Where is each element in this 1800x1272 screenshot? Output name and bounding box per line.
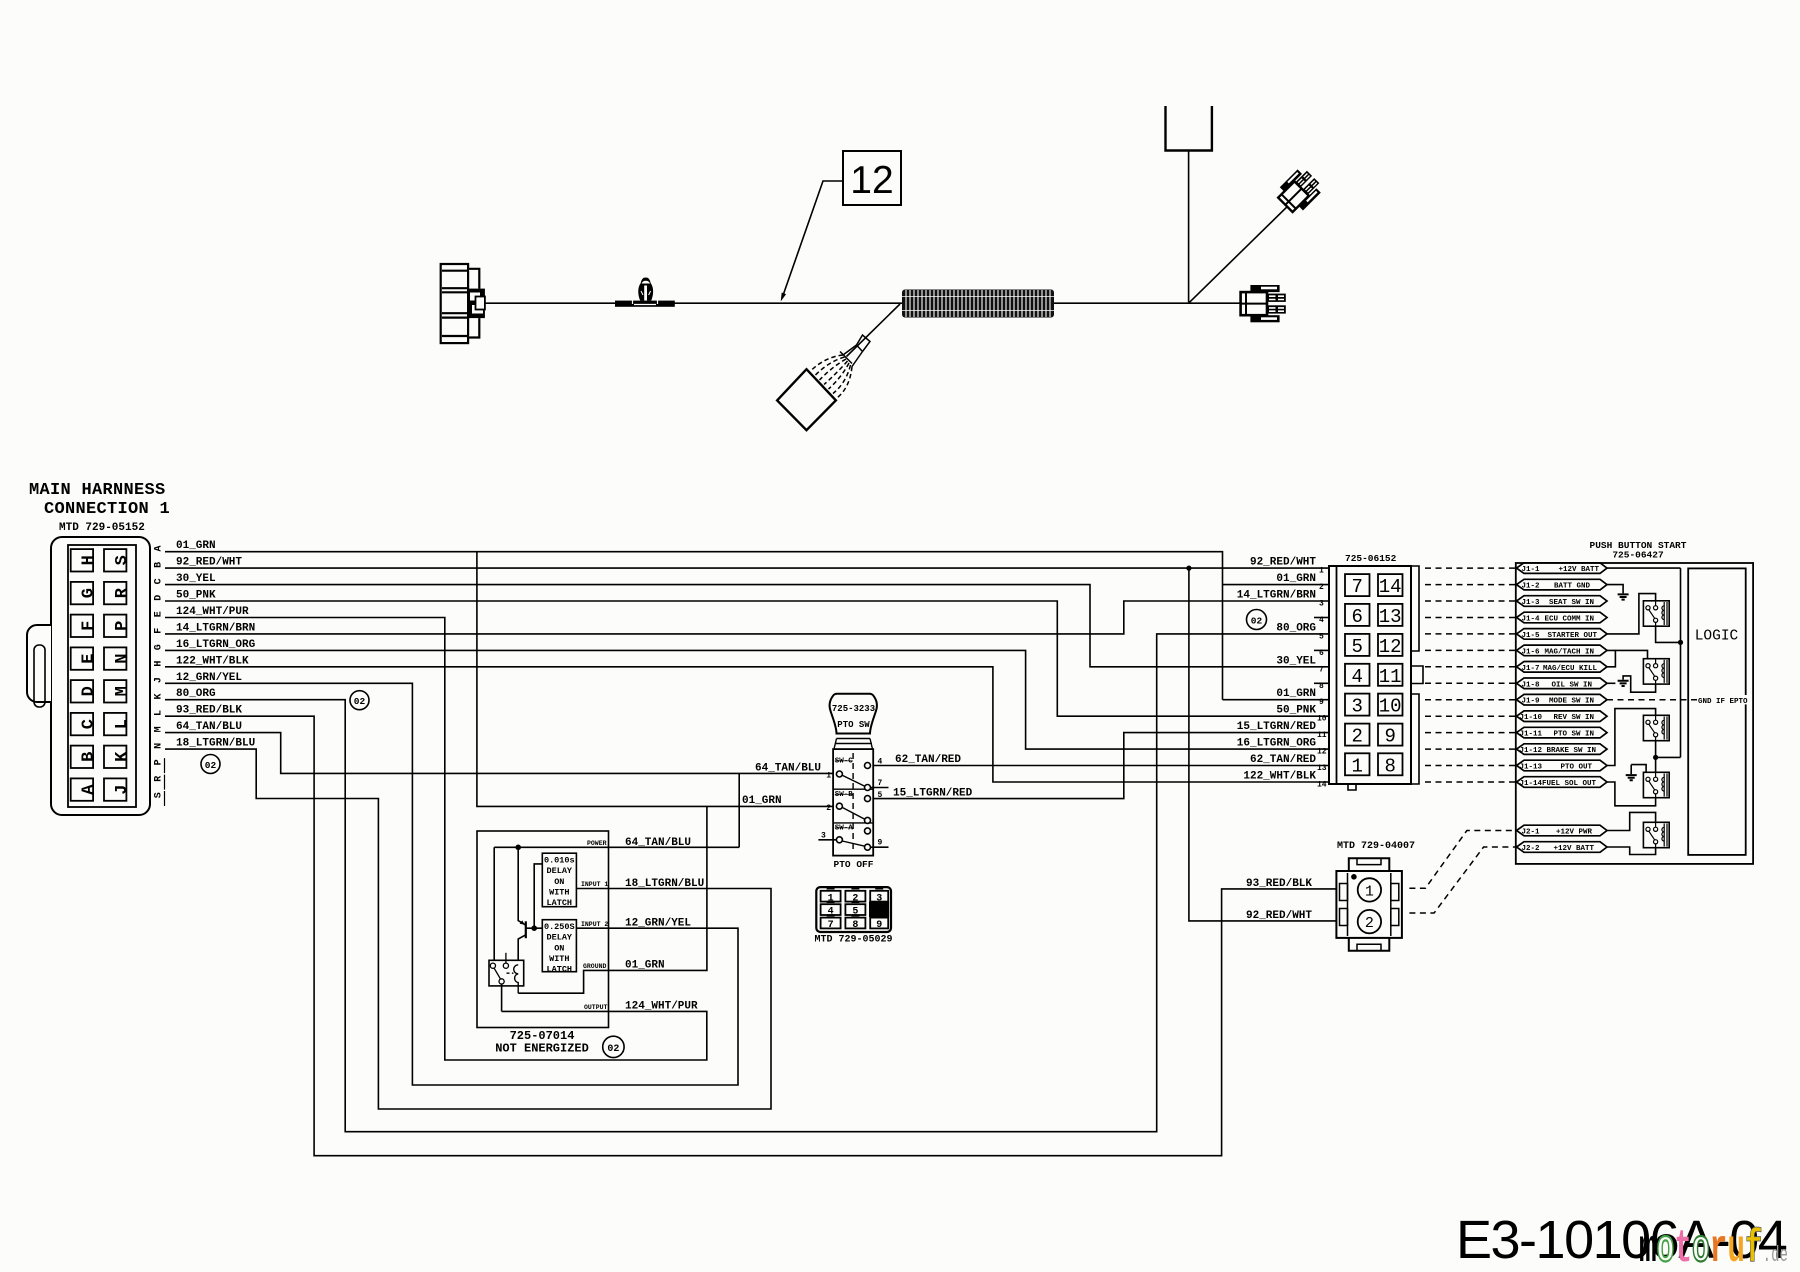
connector J1 cavity letters [80,555,132,795]
relay RL2 [1643,659,1669,684]
svg-text:MAG/TACH IN: MAG/TACH IN [1544,648,1594,656]
svg-text:12: 12 [1317,748,1327,757]
PTO switch SW-C contacts [836,763,870,791]
pin flag J1-6 [1517,645,1608,656]
svg-text:6: 6 [1351,606,1362,628]
cell 1 [821,891,841,902]
cell 9 [870,918,888,929]
svg-text:ON: ON [554,877,564,887]
transistor base junction dot [531,925,537,931]
transistor Q1 [518,847,542,965]
svg-text:11: 11 [1379,666,1402,688]
svg-text:30_YEL: 30_YEL [176,573,216,585]
svg-text:18_LTGRN/BLU: 18_LTGRN/BLU [176,738,255,750]
svg-text:12: 12 [850,159,893,202]
svg-text:K: K [154,693,165,699]
fan connector wires [811,335,871,398]
pin flag J2-2 [1517,842,1608,853]
svg-text:H: H [80,555,99,565]
svg-text:62_TAN/RED: 62_TAN/RED [895,754,961,766]
svg-text:G: G [154,644,165,650]
dashed links 06152 to push button [1425,568,1516,782]
svg-text:8: 8 [852,920,858,931]
svg-text:J2-2: J2-2 [1522,845,1541,853]
pin flag J1-9 [1517,694,1608,705]
svg-text:PTO OUT: PTO OUT [1560,764,1592,772]
svg-text:9: 9 [1384,726,1395,748]
svg-text:+12V PWR: +12V PWR [1556,829,1593,837]
svg-text:INPUT 1: INPUT 1 [581,881,608,888]
svg-text:BATT GND: BATT GND [1554,583,1591,591]
svg-text:92_RED/WHT: 92_RED/WHT [176,557,242,569]
svg-text:LATCH: LATCH [547,965,573,975]
svg-text:STARTER OUT: STARTER OUT [1547,632,1597,640]
svg-text:92_RED/WHT: 92_RED/WHT [1246,910,1312,922]
title MAIN HARNNESS CONNECTION 1 [29,481,170,534]
svg-text:G: G [80,588,99,598]
cell 3 [870,891,888,902]
svg-text:OIL SW IN: OIL SW IN [1551,681,1592,689]
connector 725-06152 body [1329,566,1423,790]
svg-text:GND IF EPTO: GND IF EPTO [1698,698,1748,706]
svg-text:5: 5 [852,907,858,918]
svg-text:3: 3 [876,893,882,904]
harness connector P1 (left) [441,264,485,343]
svg-text:OUTPUT: OUTPUT [584,1004,608,1011]
round connector key dot [1351,874,1357,880]
right tab upper [1411,566,1419,651]
junction dot 92_RED/WHT [1186,566,1191,571]
PTO switch SW-B contacts [836,796,870,824]
branch wire to fan connector [847,304,901,357]
+12V rail [1607,568,1681,757]
wire F 14_LTGRN/BRN [165,601,1329,634]
right tab middle [1411,666,1423,684]
svg-text:14: 14 [1379,576,1402,598]
svg-text:9: 9 [1319,698,1324,707]
connector 725-06152 pin boxes [1345,574,1403,775]
wire M 64_TAN/BLU [165,733,833,774]
delay module POWER junction dot [515,845,521,851]
J1-7 link [1607,650,1615,666]
svg-text:7: 7 [1319,665,1324,674]
svg-text:J1-13: J1-13 [1520,764,1543,772]
pin flag J1-11 [1517,727,1608,738]
svg-text:50_PNK: 50_PNK [1276,705,1316,717]
U bracket [1166,106,1212,151]
svg-text:S: S [113,555,132,565]
ground C [1626,775,1637,780]
wire 62_TAN/RED [873,765,1329,767]
svg-text:8: 8 [1384,755,1395,777]
PTO switch pin numbers [821,758,883,848]
PTO switch neck [835,739,872,744]
svg-text:7: 7 [878,779,883,788]
relay K1 contact box [489,960,524,986]
svg-text:92_RED/WHT: 92_RED/WHT [1250,557,1316,569]
svg-text:J1-14FUEL SOL OUT: J1-14FUEL SOL OUT [1520,780,1597,788]
pin flag J1-5 [1517,629,1608,640]
svg-text:14_LTGRN/BRN: 14_LTGRN/BRN [176,622,255,634]
svg-text:80_ORG: 80_ORG [176,688,216,700]
svg-text:6: 6 [1319,649,1324,658]
svg-text:1: 1 [1351,755,1362,777]
wire labels at 06152 [1237,557,1317,783]
svg-text:01_GRN: 01_GRN [742,795,782,807]
note circle 02 mid [350,691,369,710]
svg-text:J2-1: J2-1 [1522,829,1541,837]
svg-text:E: E [80,653,99,663]
svg-text:SW-A: SW-A [835,825,854,833]
svg-text:1: 1 [828,893,834,904]
cable clip [615,278,675,307]
svg-text:MTD 729-05029: MTD 729-05029 [814,935,892,946]
PTO switch pin9 stub [871,846,889,848]
svg-text:15_LTGRN/RED: 15_LTGRN/RED [893,788,973,800]
svg-text:4: 4 [878,758,883,767]
svg-text:+12V BATT: +12V BATT [1558,566,1599,574]
svg-text:SW-C: SW-C [835,758,854,766]
stub pin4 06152 [1314,617,1329,619]
svg-text:J1-8: J1-8 [1522,681,1541,689]
svg-text:PTO SW: PTO SW [837,720,870,730]
fan connector body (diamond) [777,369,836,430]
cell 8 [845,918,865,929]
svg-text:C: C [80,719,99,729]
wire C 30_YEL [165,585,1329,667]
label 12 leader line [784,181,844,294]
wire 15_LTGRN/RED [873,733,1329,799]
svg-text:64_TAN/BLU: 64_TAN/BLU [625,837,691,849]
cell 7 [821,918,841,929]
harness main wire [485,302,1241,304]
corrugated tube [902,290,1054,318]
svg-text:MAG/ECU KILL: MAG/ECU KILL [1543,665,1598,673]
delay module 725-07014 outer box [477,831,609,1028]
svg-text:WITH: WITH [549,887,569,897]
delay box 0.010s [542,853,576,907]
svg-text:16_LTGRN_ORG: 16_LTGRN_ORG [1237,738,1317,750]
svg-text:R: R [154,776,165,782]
svg-text:02: 02 [607,1044,619,1055]
svg-text:7: 7 [1351,576,1362,598]
svg-text:J1-2: J1-2 [1522,583,1541,591]
pin flag J1-4 [1517,612,1608,623]
pin flag J1-14 [1517,777,1608,788]
note circle 02 at 06152 pin5 [1247,610,1267,630]
svg-text:P: P [113,621,132,631]
svg-text:01_GRN: 01_GRN [1276,573,1316,585]
connector J1 body [27,537,150,815]
wire G 16_LTGRN_ORG [165,650,1329,749]
connector J1 pin cavities column 2 (S R P N M L K J) [104,549,126,801]
svg-text:WITH: WITH [549,954,569,964]
svg-text:15_LTGRN/RED: 15_LTGRN/RED [1237,721,1317,733]
bottom notch [1348,784,1356,790]
delay module part number [495,1029,589,1056]
svg-text:01_GRN: 01_GRN [1276,688,1316,700]
svg-text:J: J [154,677,165,683]
round connector MTD 729-04007 body [1336,858,1402,951]
svg-text:REV SW IN: REV SW IN [1553,714,1594,722]
relay RL5 [1643,822,1669,847]
cell 6 filled [869,902,889,918]
svg-text:H: H [154,661,165,667]
svg-text:L: L [113,719,132,729]
svg-text:14: 14 [1317,781,1327,790]
svg-text:13: 13 [1379,606,1402,628]
svg-text:POWER: POWER [587,840,607,847]
svg-text:L: L [154,710,165,716]
svg-text:50_PNK: 50_PNK [176,590,216,602]
wire labels left column [176,540,256,749]
wire 64_TAN/BLU branch to module POWER [494,773,739,847]
wire B 92_RED/WHT [165,567,1329,569]
svg-text:2: 2 [1365,915,1374,932]
J1-13 to relay RL3 [1607,709,1656,766]
J1-6 to relay RL2 [1607,650,1648,658]
svg-text:12: 12 [1379,636,1402,658]
svg-text:2: 2 [852,893,858,904]
wire N 18_LTGRN/BLU [165,749,771,1109]
svg-text:122_WHT/BLK: 122_WHT/BLK [176,655,249,667]
svg-text:725-06152: 725-06152 [1345,553,1397,564]
J1-14 to relay RL4 bottom [1607,782,1656,806]
svg-text:93_RED/BLK: 93_RED/BLK [176,705,242,717]
diagonal wire to angled connector [1189,199,1295,303]
svg-text:93_RED/BLK: 93_RED/BLK [1246,878,1312,890]
svg-text:M: M [154,726,165,732]
svg-text:12_GRN/YEL: 12_GRN/YEL [625,918,691,930]
connector 725-06152 pin numbers [1351,576,1401,777]
svg-text:122_WHT/BLK: 122_WHT/BLK [1243,771,1316,783]
svg-text:13: 13 [1317,764,1327,773]
svg-text:BRAKE SW IN: BRAKE SW IN [1546,747,1596,755]
svg-text:4: 4 [1351,666,1362,688]
svg-text:M: M [113,686,132,696]
svg-text:725-06427: 725-06427 [1612,550,1664,561]
svg-text:J1-10: J1-10 [1520,714,1543,722]
svg-text:64_TAN/BLU: 64_TAN/BLU [176,721,242,733]
pin flag J1-12 [1517,744,1608,755]
svg-text:MODE SW IN: MODE SW IN [1549,698,1594,706]
PTO switch section dividers [833,789,873,823]
svg-text:J1-5: J1-5 [1522,632,1541,640]
svg-text:ON: ON [554,943,564,953]
PTO switch pin3 stub [818,839,836,841]
PTO switch common dashed bar [852,753,854,851]
pin flag J1-8 [1517,678,1608,689]
wire K 80_ORG [165,634,1329,1132]
watermark motoruf.de [1639,1223,1788,1272]
harness connector P3 (right) [1241,285,1286,322]
svg-text:2: 2 [1351,726,1362,748]
ground B [1618,681,1629,686]
svg-text:K: K [113,751,132,762]
wire L 93_RED/BLK [165,716,1336,1155]
GND IF EPTO text [1697,695,1748,706]
svg-text:A: A [154,545,165,551]
svg-text:1: 1 [826,772,831,781]
connector J1 pin letters at wire exits [154,545,165,798]
wire 01_GRN branch to PTO switch and module ground [477,552,833,994]
relay RL2 to ground B [1623,676,1656,692]
svg-text:MTD 729-05152: MTD 729-05152 [59,522,145,534]
svg-text:PTO OFF: PTO OFF [834,859,874,870]
pin flag J2-1 [1517,825,1608,836]
wire A 01_GRN [165,552,1329,700]
cell 4 [821,904,841,915]
label 12 arrowhead [781,293,786,302]
svg-text:J1-9: J1-9 [1522,698,1541,706]
svg-text:+12V BATT: +12V BATT [1553,845,1594,853]
svg-text:J1-4: J1-4 [1522,616,1541,624]
PTO switch body [833,749,873,856]
svg-text:01_GRN: 01_GRN [625,960,665,972]
svg-text:62_TAN/RED: 62_TAN/RED [1250,754,1316,766]
round connector pin 2 [1358,910,1381,933]
harness connector P4 (angled) [1274,165,1325,216]
svg-text:3: 3 [1319,600,1324,609]
unused pin stubs P R S [164,758,166,806]
svg-text:MTD 729-04007: MTD 729-04007 [1337,841,1415,852]
svg-text:R: R [113,587,132,598]
svg-text:7: 7 [828,920,834,931]
pin flag J1-3 [1517,596,1608,607]
svg-text:4: 4 [828,907,834,918]
wire H 122_WHT/BLK [165,667,1329,782]
svg-text:J1-1: J1-1 [1522,566,1541,574]
J1-2 to ground A [1607,585,1623,594]
svg-text:5: 5 [1319,632,1324,641]
svg-text:LATCH: LATCH [547,898,573,908]
branch junction [1188,151,1190,303]
PTO switch pin1 pin2 numbers left [826,772,831,813]
grid connector numbers [828,893,883,931]
svg-text:10: 10 [1317,715,1327,724]
svg-text:N: N [113,653,132,663]
svg-text:80_ORG: 80_ORG [1276,622,1316,634]
svg-text:J: J [113,784,132,794]
svg-text:CONNECTION 1: CONNECTION 1 [44,500,170,519]
J2-2 to relay RL5 bottom [1607,847,1656,855]
svg-text:02: 02 [1251,616,1263,627]
svg-text:4: 4 [1319,616,1324,625]
svg-text:SW-B: SW-B [835,791,854,799]
svg-text:J1-11: J1-11 [1520,731,1543,739]
svg-text:16_LTGRN_ORG: 16_LTGRN_ORG [176,639,256,651]
svg-text:124_WHT/PUR: 124_WHT/PUR [625,1001,698,1013]
cell 5 [845,904,865,915]
stub pin6 06152 [1314,649,1329,651]
svg-text:5: 5 [878,791,883,800]
stub pin8 06152 [1314,682,1329,684]
svg-text:D: D [154,595,165,601]
svg-text:F: F [154,628,165,634]
relay K1 coil [514,965,519,993]
svg-text:8: 8 [1319,682,1324,691]
svg-text:ECU COMM IN: ECU COMM IN [1544,616,1594,624]
svg-text:2: 2 [826,804,831,813]
delay box1 input link [534,864,542,928]
svg-text:SEAT SW IN: SEAT SW IN [1549,599,1594,607]
svg-text:02: 02 [205,760,217,771]
svg-text:11: 11 [1317,731,1327,740]
pin flag J1-2 [1517,579,1608,590]
wire E 124_WHT/PUR [165,618,707,1061]
svg-text:N: N [154,743,165,749]
rail junction dots [1678,640,1683,645]
pin flag J1-7 [1517,662,1608,673]
PTO switch knob text [832,704,875,730]
svg-text:P: P [154,759,165,765]
svg-text:J1-3: J1-3 [1522,599,1541,607]
svg-text:F: F [80,621,99,631]
pin flag J1-1 [1517,563,1608,574]
svg-text:A: A [80,784,99,795]
svg-text:J1-12: J1-12 [1520,747,1543,755]
svg-text:1: 1 [1319,567,1324,576]
pin number subscripts at 06152 [1317,567,1327,790]
wire D 50_PNK [165,601,1329,716]
connector J1 pin cavities column 1 (H G F E D C B A) [71,549,93,801]
svg-text:18_LTGRN/BLU: 18_LTGRN/BLU [625,878,704,890]
label 12 box [843,151,901,205]
note circle 02 module [603,1036,624,1057]
svg-text:64_TAN/BLU: 64_TAN/BLU [755,762,821,774]
svg-text:MAIN HARNNESS: MAIN HARNNESS [29,481,166,500]
svg-text:02: 02 [354,696,366,707]
svg-text:LOGIC: LOGIC [1695,629,1739,645]
relay RL3 [1643,715,1669,740]
push button start outer box [1516,563,1753,864]
svg-text:D: D [80,686,99,696]
svg-text:01_GRN: 01_GRN [176,540,216,552]
delay module pin labels [581,840,608,1011]
wire J 12_GRN/YEL [165,683,738,1085]
PTO switch pin7 stub [871,787,889,789]
PTO switch section labels [835,758,854,833]
svg-text:2: 2 [1319,583,1324,592]
svg-text:1: 1 [1365,883,1374,900]
delay box 0.250S [542,920,576,972]
svg-text:E: E [154,611,165,617]
cell 2 [845,891,865,902]
relay RL4 [1643,772,1669,797]
right tab lower [1411,694,1419,784]
relay RL1 bottom to rail [1656,627,1681,643]
J2-1 to relay RL5 [1607,812,1656,830]
svg-text:INPUT 2: INPUT 2 [581,921,608,928]
svg-text:9: 9 [878,839,883,848]
svg-text:S: S [154,792,165,798]
note circle 02 left [201,755,220,774]
grid connector MTD 729-05029 [816,887,891,932]
svg-text:3: 3 [1351,696,1362,718]
svg-text:NOT ENERGIZED: NOT ENERGIZED [495,1042,589,1056]
relay K1 contacts [490,953,513,984]
dashed link round connector to J2-2 [1409,847,1516,913]
svg-text:30_YEL: 30_YEL [1276,655,1316,667]
svg-text:B: B [154,562,165,568]
svg-text:J1-6: J1-6 [1522,648,1541,656]
svg-text:DELAY: DELAY [547,866,573,876]
svg-text:9: 9 [876,920,882,931]
push button start titles [1590,540,1687,561]
round connector pin 1 [1358,878,1381,901]
relay RL3 bottom to relay RL4 top [1656,741,1681,773]
svg-text:C: C [154,578,165,584]
